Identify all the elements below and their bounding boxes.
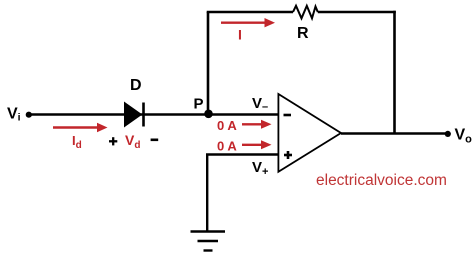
resistor R zigzag — [293, 6, 318, 18]
op-amp non-inverting input symbol + — [284, 151, 292, 159]
ground — [191, 232, 226, 251]
svg-text:Vo: Vo — [455, 127, 473, 146]
current arrow 0A lower — [242, 140, 272, 149]
wire: feedback top horizontal left segment — [207, 11, 293, 14]
wire: feedback top horizontal right segment — [318, 11, 396, 14]
label - (cathode polarity) — [151, 139, 159, 142]
svg-text:P: P — [194, 96, 204, 113]
svg-text:Vi: Vi — [7, 106, 21, 124]
diode D anode triangle — [125, 103, 142, 127]
current arrow I — [221, 18, 275, 27]
wire: vertical from node P up to feedback loop — [207, 12, 210, 114]
wire: non-inverting input horizontal from ground branch — [206, 153, 278, 155]
svg-text:electricalvoice.com: electricalvoice.com — [316, 172, 447, 189]
node P dot — [204, 110, 213, 119]
wire: ground vertical — [206, 155, 208, 232]
op-amp inverting input symbol - — [284, 114, 292, 117]
wire: output horizontal — [341, 132, 447, 134]
svg-text:Vd: Vd — [125, 132, 140, 151]
op-amp U1 triangle — [278, 94, 341, 172]
svg-text:D: D — [130, 77, 142, 94]
svg-text:I: I — [238, 27, 242, 43]
svg-text:Id: Id — [72, 133, 82, 151]
current arrow 0A upper — [242, 120, 272, 129]
svg-text:0 A: 0 A — [217, 139, 237, 154]
svg-text:0 A: 0 A — [217, 118, 237, 133]
diode D cathode bar — [142, 103, 145, 127]
wire: input horizontal Vi to op-amp inverting input — [29, 113, 278, 115]
wire: feedback right vertical down to output — [393, 11, 396, 134]
terminal dot Vi — [26, 112, 32, 118]
terminal dot Vo — [445, 131, 451, 137]
svg-text:V–: V– — [252, 95, 268, 113]
current arrow Id — [53, 123, 108, 133]
svg-text:V+: V+ — [252, 159, 268, 178]
svg-text:R: R — [297, 25, 309, 42]
label + (anode polarity) — [109, 137, 117, 145]
